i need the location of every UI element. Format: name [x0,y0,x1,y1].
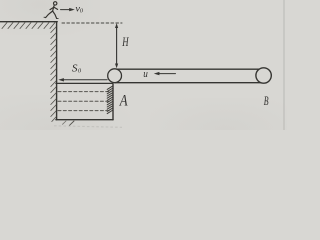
svg-text:A: A [119,92,128,109]
svg-text:u: u [143,69,148,80]
svg-text:H: H [122,34,129,49]
svg-text:B: B [264,93,269,108]
